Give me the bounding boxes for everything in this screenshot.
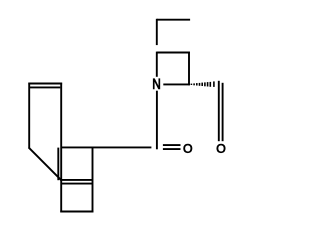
amide C=O lower line (163, 148, 181, 150)
bond A-B double bond inner line (30, 86, 61, 88)
azetidine ring top edge (157, 52, 190, 54)
bond D-G fused edge lower line (61, 183, 92, 185)
aldehyde C=O right line (222, 83, 224, 141)
bond D-G fused edge upper line (60, 179, 92, 181)
azetidine ring right edge (188, 52, 190, 86)
bond C-F and bond F to carbonyl carbon (horizontal) (61, 146, 151, 148)
azetidine ring left edge (stops above N) (156, 52, 158, 77)
bond A-E left edge of left ring (28, 83, 30, 149)
hashed wedge bond (stereo) from azetidine C2 to aldehyde carbon (191, 81, 214, 87)
bond A-B top edge of left ring (C=C main line) (28, 83, 62, 85)
atom label N (azetidine nitrogen) (153, 79, 160, 89)
amide C=O upper line (163, 144, 181, 146)
atom label O (aldehyde oxygen) (217, 144, 225, 153)
bond F-G-I right edge of squares (92, 147, 94, 213)
bond H-I bottom edge of lower square (60, 211, 93, 213)
ethyl CH2-ring bond (vertical, gap above ring corner) (156, 19, 158, 45)
bond N to amide carbonyl carbon (156, 91, 158, 150)
bond E-D diagonal edge (29, 147, 62, 180)
azetidine ring bottom edge (from N to corner) (163, 83, 190, 85)
atom label O (amide oxygen) (184, 144, 192, 153)
aldehyde C=O left line (218, 81, 220, 141)
bond B-C-D right edge of left ring (shared with squares) (60, 83, 62, 213)
bond C-D double bond inner line (57, 148, 59, 181)
ethyl CH3-CH2 bond (horizontal top) (157, 19, 190, 21)
